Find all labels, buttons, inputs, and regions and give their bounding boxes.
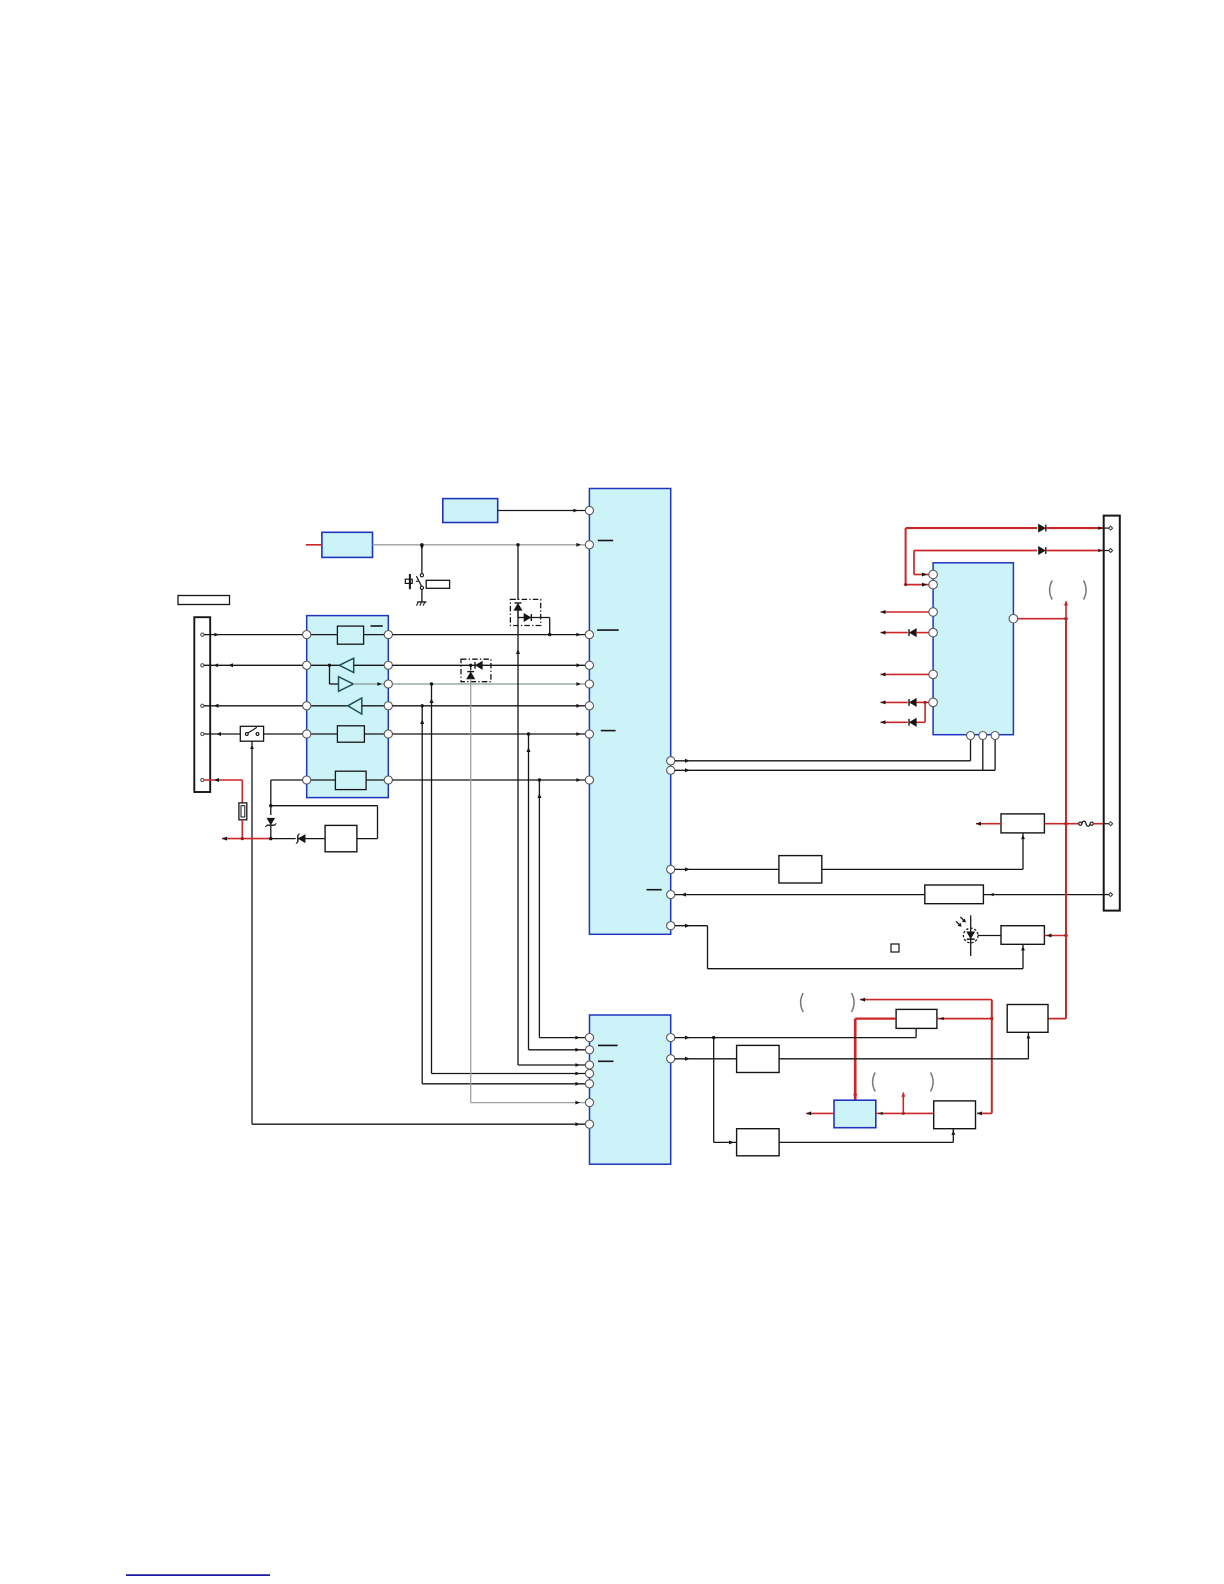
- buffer U201 right pins: [384, 631, 392, 785]
- LED D203 (photo sensor LED): [956, 915, 978, 956]
- wire PS4 to PS5: [779, 1129, 955, 1143]
- IC101 left pins: [585, 506, 593, 784]
- IC201 right pins: [667, 1034, 675, 1063]
- zener diode D201 (vertical): [265, 806, 276, 839]
- wire PS3 to PS2: [779, 1032, 1030, 1059]
- wire inverter1 to inverter2: [330, 665, 339, 684]
- buffer channel box 3: [307, 771, 389, 789]
- ground symbol: [417, 602, 427, 606]
- red wire AC line1 to CN201: [904, 525, 1104, 587]
- wire PS1 bottom to IC201: [675, 1028, 916, 1039]
- label parens (to sub power): [873, 1073, 934, 1092]
- zener diode D202 (horizontal): [271, 834, 325, 844]
- small square marker: [891, 944, 899, 952]
- red stub IC301 pin4 with diode D301: [881, 629, 929, 636]
- wire X201 to IC101 pin1: [498, 509, 586, 513]
- red stub PS6 left: [806, 1111, 834, 1115]
- IC201 left pins: [585, 1034, 593, 1129]
- wire row D segment (S201 to buffer U201): [264, 733, 307, 735]
- red stub RY201 left: [976, 822, 1001, 826]
- fuse F201: [239, 803, 247, 820]
- wire row E buffer to IC101: [392, 778, 585, 782]
- wire IC201 to PS3: [675, 1057, 737, 1061]
- wire row gray buffer out to IC101: [392, 682, 585, 686]
- red wire trunk2 to PS5: [977, 1111, 992, 1115]
- relay / detect switch S201: [240, 726, 263, 741]
- box PS4: [737, 1129, 780, 1156]
- wire IC101 to IC301 bottom pins 2-3: [675, 739, 995, 772]
- red stub into X202: [306, 544, 322, 546]
- buffer inverter 3 (points left): [307, 698, 389, 714]
- red wire RY201 to CN201: [1044, 822, 1079, 825]
- red stub IC301 pin5: [881, 672, 929, 676]
- wire row B (CN101 pin2 to buffer U201): [204, 663, 307, 667]
- switch label box: [426, 580, 449, 588]
- IC301 right pin: [1009, 614, 1018, 623]
- wire row D segment (CN101 pin4 to relay S201): [204, 732, 240, 736]
- connector CN201 (right vertical header): [1104, 516, 1120, 911]
- wire row C (CN101 pin3 to buffer U201): [204, 704, 307, 708]
- junction +B rail / zener branch: [269, 837, 272, 840]
- wire LED to box: [978, 935, 1001, 937]
- wire IC101 bottom loop to LED box: [675, 924, 1025, 969]
- cyan box PS6 (regulator): [834, 1100, 876, 1128]
- wire row D buffer to IC101: [392, 732, 585, 736]
- wire row A buffer to IC101: [392, 633, 585, 637]
- wire gray X202 to IC101 pin2: [373, 543, 586, 547]
- sub IC IC201: [590, 1015, 671, 1164]
- red branch with diode D303: [881, 702, 926, 725]
- wire drop row C to IC201 pin5: [420, 706, 585, 1086]
- red thick wire to PS1: [853, 1019, 896, 1101]
- wire row B buffer to IC101 (through photocoupler PC202): [392, 663, 585, 667]
- connector CN101 (left vertical header): [194, 617, 210, 792]
- regulator box IC202: [325, 825, 357, 851]
- wire buffer row E to zener column: [271, 780, 307, 806]
- box PS5: [934, 1101, 976, 1129]
- power box X202: [322, 532, 373, 557]
- wire red horizontal +B rail: [222, 837, 271, 841]
- wire IC101 to IC301 bottom pin1: [675, 739, 971, 763]
- wire S201 coil to IC201 pin7 (long bottom run): [250, 741, 585, 1126]
- main IC IC101: [589, 489, 670, 935]
- node label box (redacted reference): [178, 596, 230, 605]
- wire drop row E to IC201 pin1: [537, 780, 585, 1040]
- wire Q201 to relay box RY201: [822, 833, 1025, 870]
- wire drop gray-row to IC201 pin3 (through PC201): [516, 545, 585, 1067]
- wire feedback loop over box: [271, 806, 378, 839]
- red wire AC line2 to CN201: [914, 547, 1104, 576]
- wire red row E (CN101 pin5, +B feed): [204, 778, 242, 803]
- box PS1: [896, 1009, 937, 1028]
- box PS3: [737, 1045, 780, 1072]
- wire drop teal-row to IC201 pin4: [430, 684, 586, 1075]
- wire IC101 to sensor row: [675, 893, 925, 897]
- wire drop row D to IC201 pin2: [527, 734, 586, 1052]
- photocoupler PC201: [510, 599, 549, 634]
- wire IC202 out: [357, 838, 378, 840]
- buffer channel box 1: [307, 626, 389, 644]
- red wire PS1 to trunk2: [937, 1017, 994, 1020]
- wire row A (CN101 pin1 to buffer U201 in): [204, 633, 307, 637]
- wire IC101 to driver box row: [675, 867, 779, 871]
- sensor box X201: [443, 499, 498, 523]
- buffer U201 left pins: [303, 631, 311, 785]
- label parens (power source): [801, 993, 855, 1012]
- junction zener column: [269, 804, 272, 807]
- IC301 left pins: [929, 570, 938, 707]
- wire red below fuse: [241, 820, 243, 839]
- red stub IC301 pin6 with diode D302: [881, 699, 929, 706]
- buffer driver 2 (points right): [339, 677, 389, 692]
- red wire PS6 to PS5: [876, 1112, 934, 1115]
- photocoupler PC202: [461, 659, 491, 682]
- wire drop gray PC202 to IC201 pin6: [471, 682, 586, 1105]
- red +B trunk from IC301: [1018, 601, 1068, 1019]
- box PS2: [1007, 1005, 1048, 1033]
- wire row C buffer to IC101: [392, 704, 585, 708]
- red trunk2 with label arrow: [860, 998, 992, 1114]
- power IC IC301: [933, 563, 1013, 735]
- junction buffer row B: [328, 664, 331, 667]
- footer link underline: [126, 1574, 270, 1576]
- label parens (to power): [1050, 581, 1087, 600]
- driver box Q201: [779, 856, 822, 883]
- push switch S202: [405, 545, 424, 602]
- LED box Q202: [1001, 926, 1044, 945]
- IC101 right pins: [667, 757, 675, 930]
- sensor box TH201: [925, 885, 984, 904]
- buffer IC U201 (hex buffer block): [307, 616, 389, 798]
- red stub to label 2: [901, 1092, 905, 1114]
- relay box RY201: [1001, 814, 1044, 833]
- wire branch to PS4 row: [714, 1038, 737, 1145]
- red wire Q202 to +B trunk: [1044, 934, 1067, 938]
- jumper link JP201: [1079, 821, 1104, 826]
- red stub IC301 pin3: [881, 610, 929, 614]
- buffer channel box 2: [307, 726, 389, 742]
- buffer inverter 1 (points left): [307, 658, 389, 672]
- IC301 bottom pins: [967, 732, 1000, 740]
- wire TH201 to CN201 pin: [983, 893, 1103, 896]
